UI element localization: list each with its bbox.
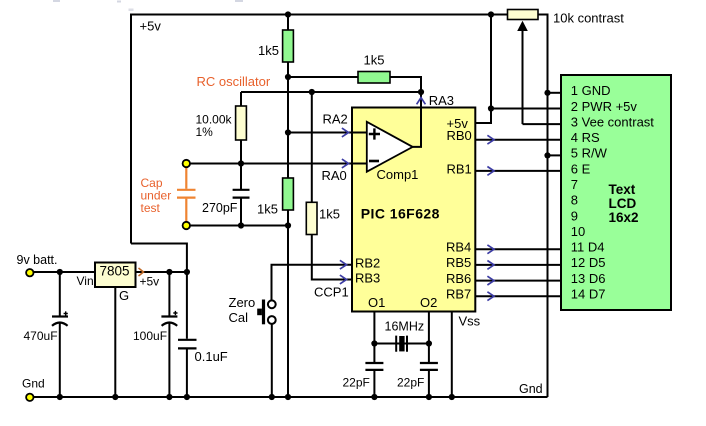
junction rail / O1: [371, 394, 377, 400]
arrow into RA2: [342, 128, 349, 137]
junction 100uF top: [166, 269, 172, 275]
blue signal arrows: [340, 98, 494, 301]
wire PIC +5v pin to top rail: [475, 15, 491, 124]
wire RB7 to LCD pin14: [475, 295, 561, 297]
junction rail / 470uF: [57, 394, 63, 400]
arrow RA3 output up: [417, 98, 426, 105]
svg-text:12 D5: 12 D5: [571, 255, 606, 270]
svg-text:RB1: RB1: [447, 162, 472, 177]
svg-text:1%: 1%: [196, 125, 214, 139]
svg-text:1k5: 1k5: [258, 43, 279, 58]
capacitor 0.1uF plates: [178, 340, 197, 349]
wire RC oscillator node y92: [241, 91, 421, 93]
capacitor 470uF electrolytic: [52, 315, 68, 317]
arrow into RB2: [340, 260, 347, 269]
junction rail / Vss: [449, 394, 455, 400]
junction rail / 0.1uF: [184, 394, 190, 400]
capacitor 22pF left plates: [365, 363, 383, 370]
svg-text:14 D7: 14 D7: [571, 287, 606, 302]
svg-text:4 RS: 4 RS: [571, 130, 600, 145]
wire RB2 to switch: [272, 265, 353, 301]
switch Zero Cal pushbutton: [268, 300, 276, 308]
arrow RB7 to D7: [487, 292, 494, 301]
capacitor under test orange symbol: [177, 168, 196, 222]
wire x288 lower to ground rail: [287, 210, 289, 397]
wire O2 column below 22pF: [428, 371, 430, 397]
junction rail / 7805 G: [112, 394, 118, 400]
svg-text:RA3: RA3: [429, 93, 454, 108]
potentiometer wiper arrow: [517, 21, 528, 31]
svg-text:10: 10: [571, 224, 585, 239]
junction top rail / R 1k5 column: [285, 11, 291, 17]
wire Vss pin to ground rail: [451, 312, 453, 398]
top edge cropped text fragments: [53, 0, 243, 11]
svg-text:7805: 7805: [100, 264, 130, 279]
svg-text:1k5: 1k5: [257, 201, 278, 216]
svg-text:+5v: +5v: [140, 275, 160, 289]
svg-text:270pF: 270pF: [202, 201, 238, 215]
wire 7805 output: [136, 271, 187, 273]
wire frame bottom to regulator output: [131, 244, 187, 339]
svg-text:470uF: 470uF: [24, 329, 58, 343]
potentiometer 10k contrast body: [508, 10, 539, 20]
svg-text:0.1uF: 0.1uF: [195, 349, 228, 364]
wire O1 column below 22pF: [373, 371, 375, 397]
svg-text:PIC 16F628: PIC 16F628: [361, 206, 440, 222]
svg-text:1k5: 1k5: [319, 206, 340, 221]
svg-text:100uF: 100uF: [133, 329, 167, 343]
terminal 9v battery: [26, 269, 33, 276]
svg-text:RA0: RA0: [322, 168, 347, 183]
wire switch bottom to ground rail: [271, 324, 273, 397]
svg-text:RB5: RB5: [446, 255, 471, 270]
terminal Gnd: [26, 394, 33, 401]
svg-text:Text: Text: [609, 182, 636, 197]
svg-text:O1: O1: [368, 295, 385, 310]
op-amp plus input sign: [369, 128, 380, 139]
svg-text:RB3: RB3: [355, 270, 380, 285]
wire pot right end down to ground rail: [538, 15, 548, 398]
wire 470uF bottom: [59, 322, 61, 397]
resistor R1 1k5 top (green vertical): [283, 30, 294, 62]
junction RA2 tap: [285, 129, 291, 135]
svg-text:RA2: RA2: [323, 112, 348, 127]
wire RA0: [186, 163, 366, 165]
svg-text:9: 9: [571, 208, 578, 223]
junction crystal left: [371, 340, 377, 346]
svg-text:Vss: Vss: [459, 313, 481, 328]
wire O1 column: [373, 312, 375, 363]
capacitor 270pF plates: [233, 190, 250, 198]
junction +5v / LCD pin2: [488, 105, 494, 111]
regulator 7805 body: [95, 263, 136, 288]
wire 1k5 feedback branch left: [288, 76, 358, 78]
wire LCD pin2 PWR: [491, 108, 561, 110]
arrow into RA0: [342, 159, 349, 168]
svg-text:3 Vee contrast: 3 Vee contrast: [571, 114, 654, 129]
junction lower 1k5 bottom: [285, 222, 291, 228]
junction rail / 1k5 column: [285, 394, 291, 400]
svg-text:1k5: 1k5: [364, 53, 385, 68]
wire ground rail: [33, 396, 548, 398]
svg-text:RB4: RB4: [446, 240, 471, 255]
svg-text:10k contrast: 10k contrast: [553, 10, 624, 25]
capacitor 22pF right plates: [420, 363, 438, 370]
wire RB5 to LCD pin12: [475, 264, 561, 266]
wire 100uF top: [168, 272, 170, 316]
junction gnd column / LCD pin5: [544, 152, 550, 158]
svg-text:1 GND: 1 GND: [571, 83, 611, 98]
junction crystal right: [426, 340, 432, 346]
wire +5v column x288 top: [287, 15, 289, 31]
svg-text:test: test: [141, 201, 161, 215]
junction rail / O2: [426, 394, 432, 400]
arrow RB4 to D4: [487, 245, 494, 254]
junction 0.1uF column / +5v: [184, 269, 190, 275]
svg-text:+5v: +5v: [140, 19, 162, 34]
svg-text:RB6: RB6: [446, 271, 471, 286]
wire 1k5 feedback branch right to RA3 node: [390, 77, 421, 92]
wire 10.00k top link: [240, 92, 242, 106]
svg-text:RB2: RB2: [355, 256, 380, 271]
junction gnd column / LCD pin1: [544, 90, 550, 96]
resistor 1k5 CCP (pale vertical): [306, 202, 317, 234]
svg-text:8: 8: [571, 193, 578, 208]
svg-text:13 D6: 13 D6: [571, 271, 606, 286]
wire 7805 ground pin: [114, 287, 116, 397]
wire LCD pin3 Vee: [523, 123, 562, 125]
terminal cap test bottom: [183, 222, 190, 229]
svg-text:22pF: 22pF: [343, 375, 370, 389]
wire LCD pin1 GND stub: [548, 92, 562, 94]
wire 1k5 CCP divider to RB3: [312, 235, 352, 280]
resistor 10.00k 1% (pale vertical): [236, 106, 247, 140]
wire test terminal 2 row: [186, 225, 288, 227]
svg-text:Gnd: Gnd: [519, 382, 543, 396]
svg-text:5 R/W: 5 R/W: [571, 146, 608, 161]
svg-text:6 E: 6 E: [571, 161, 591, 176]
svg-text:9v batt.: 9v batt.: [17, 253, 58, 267]
svg-text:16MHz: 16MHz: [385, 320, 425, 334]
svg-text:LCD: LCD: [609, 196, 637, 211]
junction top rail / +5v drop: [488, 11, 494, 17]
wire RB0 to LCD pin4 RS: [475, 139, 561, 141]
svg-text:Vin: Vin: [77, 274, 94, 288]
svg-text:Zero: Zero: [229, 295, 256, 310]
svg-text:11 D4: 11 D4: [571, 240, 605, 255]
terminal cap test top: [183, 160, 190, 167]
svg-text:22pF: 22pF: [397, 375, 424, 389]
svg-text:Comp1: Comp1: [377, 167, 419, 182]
arrow RB1 to E: [487, 167, 494, 176]
wire LCD pin5 RW stub: [548, 154, 562, 156]
wire crystal row: [374, 343, 429, 345]
junction 1k5 feedback tap: [285, 74, 291, 80]
arrow RB0 to RS: [487, 135, 494, 144]
svg-text:RC oscillator: RC oscillator: [197, 74, 271, 89]
svg-text:O2: O2: [420, 295, 437, 310]
junction rail / 100uF: [166, 394, 172, 400]
junction RA0 / 10.00k / 270pF: [238, 160, 244, 166]
svg-text:16x2: 16x2: [609, 210, 639, 225]
svg-text:RB0: RB0: [447, 128, 472, 143]
wire 0.1uF bottom: [186, 349, 188, 397]
wire RB6 to LCD pin13: [475, 280, 561, 282]
svg-text:RB7: RB7: [446, 286, 471, 301]
op-amp Comp1 triangle: [367, 122, 413, 172]
arrow into RB3: [340, 275, 347, 284]
svg-text:7: 7: [571, 177, 578, 192]
wire 1k5 CCP divider column x311.8 upper: [311, 92, 313, 202]
wire x288 between resistors: [287, 62, 289, 178]
wire 470uF top: [59, 272, 61, 316]
resistor 1k5 feedback (green horizontal): [358, 72, 390, 84]
capacitor 100uF electrolytic: [161, 315, 177, 317]
junction 270pF bottom: [238, 222, 244, 228]
LCD module body: [561, 75, 671, 310]
junction rail / switch: [269, 394, 275, 400]
wire 100uF bottom: [168, 322, 170, 397]
wire RB1 to LCD pin6 E: [475, 170, 561, 172]
wire 10.00k bottom to 270pF: [240, 140, 242, 189]
resistor 1k5 lower (green vertical): [283, 178, 294, 210]
wire 9v battery input: [33, 271, 95, 273]
arrow RB5 to D5: [487, 261, 494, 270]
op-amp minus input sign: [369, 160, 379, 163]
junction RC node / 1k5 divider: [309, 89, 315, 95]
svg-text:CCP1: CCP1: [314, 284, 349, 299]
arrow RB6 to D6: [487, 276, 494, 285]
junction RC node / RA3: [418, 89, 424, 95]
crystal 16MHz symbol: [396, 336, 407, 352]
wire 270pF bottom: [240, 199, 242, 226]
wire O2 column: [428, 312, 430, 363]
wire RA0 stub inside PIC: [352, 163, 367, 165]
wire pot wiper down to Vee row: [522, 29, 524, 124]
wire RA2 stub inside PIC: [352, 132, 367, 134]
svg-text:2 PWR +5v: 2 PWR +5v: [571, 99, 638, 114]
wire RB4 to LCD pin11: [475, 248, 561, 250]
svg-text:Gnd: Gnd: [22, 377, 45, 391]
orange arrow at 7805 output: [139, 268, 144, 276]
wire +5v frame: left border and top rail: [131, 15, 508, 244]
op-amp output wire to RA3: [413, 108, 421, 147]
svg-text:Cal: Cal: [229, 310, 249, 325]
PIC 16F628 U1 body: [352, 108, 475, 312]
wire RA3 stub above PIC: [420, 92, 422, 108]
junction 470uF top: [57, 269, 63, 275]
svg-text:G: G: [119, 288, 129, 303]
wire RA2: [288, 132, 367, 134]
